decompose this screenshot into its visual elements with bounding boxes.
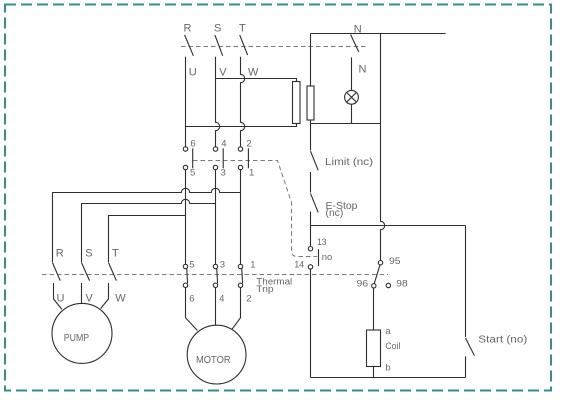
overload contact 3-4 blade bbox=[216, 268, 219, 283]
svg-text:2: 2 bbox=[246, 294, 251, 305]
wire contact 5 to overload bbox=[185, 170, 187, 265]
svg-text:(nc): (nc) bbox=[326, 208, 344, 219]
wire V branch to suppressor top bbox=[216, 79, 297, 82]
long dashed linkage line bbox=[42, 274, 388, 276]
motor wire leg 1 bbox=[186, 288, 198, 331]
isolator blade R bbox=[185, 35, 194, 56]
wire 96 to coil bbox=[373, 288, 375, 330]
motor wire leg 2 bbox=[215, 288, 217, 326]
switch blade N bbox=[351, 35, 359, 53]
svg-text:MOTOR: MOTOR bbox=[196, 355, 231, 366]
svg-text:2: 2 bbox=[246, 138, 251, 149]
svg-text:b: b bbox=[385, 363, 390, 374]
svg-text:S: S bbox=[214, 23, 221, 35]
isolator blade T bbox=[240, 35, 248, 55]
start switch blade bbox=[466, 338, 475, 356]
wire N switch to lamp bbox=[351, 57, 353, 90]
pump wire V leg bbox=[81, 283, 83, 304]
main contact 4-3 blade bbox=[222, 148, 224, 168]
wire phase W (hops at y=78.6 and y=126) bbox=[241, 57, 245, 147]
isolator mechanical linkage dashed line bbox=[181, 46, 366, 48]
svg-text:no: no bbox=[322, 252, 333, 263]
fuse F1 bbox=[307, 86, 314, 120]
svg-text:N: N bbox=[359, 64, 367, 76]
svg-text:N: N bbox=[354, 23, 362, 35]
svg-text:Limit (nc): Limit (nc) bbox=[325, 157, 373, 168]
isolator blade S bbox=[215, 35, 223, 56]
pump motor circle bbox=[52, 303, 112, 363]
wire U branch to suppressor bottom bbox=[186, 124, 297, 127]
pump switch blade R bbox=[53, 263, 61, 281]
aux contact terminal 13 bbox=[308, 247, 312, 251]
svg-text:Coil: Coil bbox=[385, 341, 400, 352]
contactor coil bbox=[367, 330, 381, 367]
pump switch blade S bbox=[82, 263, 90, 281]
wire pump feed 2 (V to pump S, hop) bbox=[82, 199, 216, 262]
svg-text:14: 14 bbox=[294, 260, 304, 271]
main contact 4-3 terminals bbox=[213, 147, 217, 151]
main contact 6-5 blade bbox=[192, 148, 194, 168]
svg-text:V: V bbox=[86, 292, 94, 304]
svg-text:W: W bbox=[248, 67, 259, 79]
wire contact 1 to overload bbox=[240, 170, 242, 265]
svg-text:96: 96 bbox=[357, 278, 369, 289]
wire e-stop to junction bbox=[310, 212, 312, 226]
wire 14 to bottom rail bbox=[310, 269, 312, 377]
svg-text:5: 5 bbox=[190, 168, 195, 179]
right rail (hop at y=225.8) bbox=[381, 34, 385, 261]
svg-text:6: 6 bbox=[190, 138, 195, 149]
svg-text:PUMP: PUMP bbox=[64, 333, 90, 344]
svg-text:5: 5 bbox=[189, 260, 194, 271]
motor wire leg 3 bbox=[232, 288, 241, 330]
pump wire U leg bbox=[54, 283, 62, 309]
aux contact terminal 14 bbox=[308, 265, 312, 269]
wire lamp bottom horizontal bbox=[311, 123, 381, 125]
wire pump feed 1 (W to pump R, hops) bbox=[53, 188, 241, 262]
svg-text:3: 3 bbox=[221, 168, 226, 179]
main contact 2-1 blade bbox=[247, 148, 249, 168]
wire junction to contact 13 bbox=[310, 226, 312, 247]
overload contact 3-4 terminals bbox=[213, 264, 217, 268]
suppressor element FS1 bbox=[293, 82, 301, 124]
aux contact blade bbox=[318, 249, 320, 266]
svg-text:V: V bbox=[219, 67, 227, 79]
svg-text:W: W bbox=[115, 292, 126, 304]
wire coil to bottom rail bbox=[373, 367, 375, 378]
overload contact 5-6 terminals bbox=[183, 264, 187, 268]
svg-text:98: 98 bbox=[396, 278, 408, 289]
svg-text:S: S bbox=[85, 247, 92, 259]
svg-text:U: U bbox=[189, 67, 197, 79]
wire limit to e-stop bbox=[310, 172, 312, 193]
wire lamp bottom bbox=[351, 104, 353, 123]
overload contact 5-6 blade bbox=[186, 268, 189, 283]
wire rail to fuse bbox=[310, 34, 312, 87]
wire below start switch bbox=[465, 356, 467, 377]
wire pump feed 3 (U to pump T) bbox=[109, 216, 186, 263]
indicator lamp bbox=[345, 90, 359, 104]
svg-text:3: 3 bbox=[220, 260, 225, 271]
wire contact 3 to overload bbox=[215, 170, 217, 265]
svg-text:1: 1 bbox=[249, 168, 254, 179]
wire fuse to limit switch bbox=[310, 120, 312, 150]
bottom rail bbox=[311, 377, 466, 379]
svg-text:R: R bbox=[56, 247, 64, 259]
main contact 6-5 terminals bbox=[183, 147, 187, 151]
e-stop blade bbox=[311, 193, 319, 212]
pump wire W leg bbox=[101, 283, 109, 309]
overload terminal 98 bbox=[386, 283, 390, 287]
svg-text:4: 4 bbox=[221, 138, 226, 149]
wire phase V (hop at y=126) bbox=[216, 57, 220, 147]
motor circle bbox=[187, 325, 246, 384]
overload terminal 96 bbox=[372, 284, 376, 288]
svg-text:6: 6 bbox=[189, 294, 194, 305]
wire start branch vertical bbox=[465, 226, 467, 338]
top rail N bbox=[311, 33, 446, 35]
svg-text:1: 1 bbox=[250, 260, 255, 271]
overload contact 1-2 blade bbox=[241, 268, 244, 283]
svg-text:13: 13 bbox=[317, 237, 327, 248]
wire junction to start branch bbox=[311, 225, 466, 227]
mechanical link dashed contactor to aux contact bbox=[193, 161, 317, 257]
svg-text:Trip: Trip bbox=[256, 284, 273, 294]
overload terminal 95 bbox=[378, 261, 382, 265]
svg-text:T: T bbox=[239, 23, 246, 35]
svg-text:Start (no): Start (no) bbox=[478, 334, 527, 345]
overload blade 95-96 bbox=[374, 265, 380, 284]
main contact 2-1 terminals bbox=[238, 147, 242, 151]
svg-text:R: R bbox=[184, 23, 192, 35]
svg-text:U: U bbox=[57, 292, 65, 304]
svg-text:a: a bbox=[385, 326, 391, 337]
svg-text:T: T bbox=[112, 247, 119, 259]
svg-text:95: 95 bbox=[389, 256, 401, 267]
overload contact 1-2 terminals bbox=[238, 264, 242, 268]
svg-text:4: 4 bbox=[219, 294, 224, 305]
pump switch blade T bbox=[109, 263, 117, 281]
limit switch blade bbox=[311, 151, 319, 170]
wire phase U bbox=[185, 57, 187, 147]
